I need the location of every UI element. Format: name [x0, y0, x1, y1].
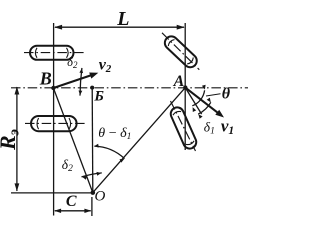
- wire: bottom-left wheel centerline: [25, 122, 87, 124]
- angle arc theta at A (axis to wheel plane) with leader to label: [192, 85, 220, 112]
- wire: line B to O: [53, 88, 92, 193]
- angle arc theta-minus-delta1 at O (vertical to OA line): [94, 144, 125, 163]
- node O (turning center): [91, 190, 96, 195]
- top-left (rear outer) wheel: [30, 46, 74, 60]
- svg-text:L: L: [116, 8, 129, 30]
- svg-text:θ − δ1: θ − δ1: [98, 126, 131, 142]
- svg-text:Б: Б: [93, 89, 104, 105]
- angle mark delta2 at O (OB line to vertical OБ): [82, 172, 102, 180]
- dimension C line with arrows and right extension line: [54, 197, 92, 216]
- angle mark delta2 at B (axis to v2): [79, 68, 84, 96]
- wire: front wheel plane line from A: [185, 88, 201, 115]
- node Б (projection of turning center on axis): [90, 86, 94, 90]
- dimension L line with arrows: [54, 25, 185, 30]
- wire: vertical line Б to O: [91, 88, 94, 193]
- wire: top-right wheel centerline (tilted): [162, 33, 199, 70]
- wire: bottom horizontal line through O: [11, 192, 93, 194]
- vector v1 at A: [185, 88, 224, 118]
- wire: longitudinal axis dash-dot line through B, Б, A: [11, 87, 248, 89]
- bottom-left (rear inner) wheel: [31, 116, 77, 131]
- svg-text:O: O: [94, 189, 105, 205]
- vector v2 at B: [53, 73, 98, 89]
- node B (rear axle center): [51, 86, 55, 90]
- svg-text:θ: θ: [222, 85, 231, 102]
- dimension R_e vertical line with arrows: [15, 87, 20, 192]
- wire: rear track vertical line through B down to C extension: [53, 23, 55, 216]
- bottom-right (front inner, steered) wheel: [171, 107, 196, 148]
- node A (front axle center): [183, 85, 187, 89]
- wire: bottom-right wheel centerline (tilted): [171, 101, 196, 151]
- angle arc delta1 at A (wheel plane to v1): [198, 98, 211, 119]
- wire: front track vertical line through A: [184, 23, 186, 150]
- top-right (front outer, steered) wheel: [165, 36, 197, 67]
- wire: top-left wheel centerline: [24, 52, 84, 54]
- wire: line A to O: [93, 88, 186, 193]
- svg-text:A: A: [173, 73, 185, 90]
- svg-text:C: C: [66, 193, 77, 210]
- svg-text:B: B: [39, 69, 52, 89]
- label R_e (rotated): [0, 129, 22, 151]
